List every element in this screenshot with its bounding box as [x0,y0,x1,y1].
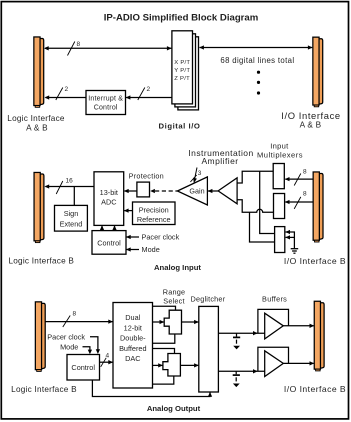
wire DAC to S1 top [153,306,176,310]
svg-text:I/O Interface B: I/O Interface B [284,256,346,266]
wire bus J4 to U8 (8) [285,178,313,180]
svg-text:Protection: Protection [129,171,164,180]
svg-text:Deglitcher: Deglitcher [190,294,225,303]
wire DAC to S2 top [153,349,175,354]
wire control U11 to deglitcher bottom [92,380,210,397]
svg-text:Interrupt &: Interrupt & [88,95,123,102]
wire bus J1 to U1 (8) double arrow [45,47,171,49]
ground symbol [291,248,299,250]
wire S1 to deglitcher arrow [182,321,199,323]
interrupt & control box U2 [86,91,126,115]
capacitor C1 to ground [236,333,238,336]
connector J3 Logic Interface B [40,174,44,240]
wire mode input arrow [126,249,139,251]
svg-text:Pacer clock: Pacer clock [47,332,85,341]
svg-text:Sign: Sign [64,209,79,218]
svg-text:4: 4 [106,352,110,359]
bus width slash 8 [294,174,301,186]
svg-text:2: 2 [147,86,151,93]
wire mux3 reference inputs to ground [286,232,295,248]
wire U1 to U2 (2) [126,97,172,99]
digital I/O counter/timer stack U1 (back planes) [178,37,199,110]
svg-text:Multiplexers: Multiplexers [257,150,303,159]
svg-text:Logic Interface B: Logic Interface B [11,385,77,394]
wire bus J4 to U9 (8) [285,201,313,203]
svg-text:8: 8 [73,311,77,318]
range select switch S2 [163,354,181,377]
svg-text:Logic Interface B: Logic Interface B [8,257,74,266]
bus width slash 8 [63,316,70,328]
svg-text:Input: Input [270,142,289,151]
svg-text:8: 8 [77,41,81,48]
svg-text:2: 2 [65,86,69,93]
svg-text:8: 8 [303,190,307,197]
svg-text:Mode: Mode [142,245,160,254]
svg-text:Pacer clock: Pacer clock [142,233,180,242]
DAC box U12 [113,303,153,389]
svg-text:A & B: A & B [26,123,48,132]
gain select control arrow (3) [195,168,198,180]
connector J4 I/O Interface B (middle) [319,174,323,240]
svg-text:Control: Control [71,363,95,372]
deglitcher box U13 [199,306,219,392]
svg-text:Buffered: Buffered [119,344,146,353]
control box U7 [92,231,126,255]
wire branch mux1 net to mux3 upper input [260,171,275,233]
wire buffer A4 output to J6 [283,362,313,364]
svg-text:Range: Range [163,287,186,296]
svg-text:Gain: Gain [189,187,204,196]
svg-text:Analog Output: Analog Output [147,404,201,413]
control box U11 (bottom) [67,355,100,381]
wire pacer clock elbow into control [90,337,98,350]
svg-text:Y P/T: Y P/T [174,68,190,74]
sign extend box U4 [55,205,88,231]
wire DAC to S2 input arrow [153,364,163,366]
wire deglitcher to buffer A3 [218,332,264,334]
wire mux2 output to A2 - input (with hop) [237,200,273,213]
svg-text:Logic Interface: Logic Interface [7,114,65,123]
ADC box U3 [94,172,124,226]
bus width slash 3 [190,175,196,182]
wire branch mux2 net to mux3 lower input [250,212,275,242]
svg-text:IP-ADIO Simplified Block Diagr: IP-ADIO Simplified Block Diagram [104,12,259,23]
buffer op-amp A4 with feedback [258,347,289,371]
svg-text:DAC: DAC [125,354,140,363]
connector J6 I/O Interface B (bottom) [320,303,324,368]
svg-text:Select: Select [163,297,184,306]
wire U2 to J1 (2) [46,97,87,99]
svg-text:3: 3 [198,170,202,177]
wire gain to U5 dashed arrow [155,190,177,192]
buffer op-amp A3 with feedback [258,309,289,333]
svg-text:8: 8 [303,169,307,176]
svg-text:68 digital lines total: 68 digital lines total [220,56,294,65]
capacitor C2 to ground [235,371,237,374]
svg-text:Control: Control [94,105,118,112]
svg-text:Precision: Precision [139,205,169,214]
protection box U5 [137,182,150,197]
svg-text:16: 16 [66,177,74,184]
wire U5 to U3 arrow [125,190,137,192]
wire bus U3 to J3 (16) [46,186,95,188]
wire buffer A3 output to J6 [283,325,313,327]
wire S1 bottom return to DAC [153,334,175,343]
svg-text:Mode: Mode [60,342,78,351]
wire tap to sign extend [73,187,75,206]
svg-text:13-bit: 13-bit [100,188,118,197]
svg-text:I/O Interface B: I/O Interface B [284,384,346,394]
svg-text:Z P/T: Z P/T [174,76,190,82]
connector J1 Logic Interface A & B [40,39,44,105]
wire bus U11 to DAC (4) [100,361,113,363]
bus width slash 2 [138,88,145,101]
wire mux1 output to A2 + input [237,171,273,183]
wire U7 to U3 up arrows [101,226,103,231]
multiplexer U9 [274,194,285,219]
wire bus U1 to J2 (68 lines) double arrow [200,47,313,49]
wire A2 to A1 arrow [208,190,218,192]
range select switch S1 [164,310,181,334]
svg-text:Control: Control [97,238,121,247]
svg-text:Amplifier: Amplifier [201,156,238,166]
op-amp A1 Gain [177,177,207,205]
svg-text:Reference: Reference [137,215,171,224]
bus width slash 16 [56,181,63,194]
svg-text:Extend: Extend [60,219,83,228]
svg-text:Buffers: Buffers [262,294,287,303]
wire deglitcher to buffer A4 [218,370,264,372]
wire U6 to U3 arrow [124,210,132,212]
wire DAC to S1 input arrow [153,321,164,323]
multiplexer U8 [273,164,284,189]
wire S2 bottom return to DAC [153,376,174,384]
svg-text:Dual: Dual [125,313,140,322]
svg-text:ADC: ADC [101,198,116,207]
multiplexer U10 [275,227,285,253]
bus width slash 8 [294,197,301,209]
precision reference box U6 [133,202,176,225]
wire pacer clock input arrow [126,236,139,238]
svg-text:12-bit: 12-bit [124,323,142,332]
ellipsis dots [257,71,260,74]
op-amp A2 instrumentation amplifier [218,178,237,204]
wire mode elbow into control [83,347,90,351]
bus width slash 8 [68,42,75,56]
bus width slash 2 [56,88,63,101]
svg-text:Double-: Double- [120,334,146,343]
digital I/O counter/timer stack U1 (front plane X/Y/Z P/T) [172,31,193,104]
svg-text:Analog Input: Analog Input [154,263,201,272]
connector J5 Logic Interface B (bottom) [41,303,45,368]
bus width slash 4 [101,358,107,367]
svg-text:X P/T: X P/T [174,60,190,66]
wire S2 to deglitcher arrow [180,364,198,366]
wire bus J5 to DAC (8) [45,321,112,323]
svg-text:A & B: A & B [300,120,322,129]
connector J2 I/O Interface A & B [319,39,323,104]
svg-text:Digital I/O: Digital I/O [159,121,201,130]
